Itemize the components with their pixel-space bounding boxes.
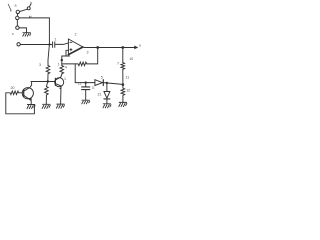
svg-text:o: o [139,44,141,48]
svg-text:7: 7 [117,61,119,65]
svg-text:10: 10 [129,57,133,61]
svg-text:5: 5 [101,76,103,80]
svg-text:1: 1 [64,77,66,81]
svg-text:c: c [12,32,14,36]
svg-text:3: 3 [39,63,41,67]
svg-text:1: 1 [58,63,60,67]
svg-text:21: 21 [98,93,102,97]
svg-text:a: a [15,3,17,7]
svg-text:b: b [30,1,32,5]
svg-text:2: 2 [75,33,77,37]
svg-text:1: 1 [55,38,57,42]
svg-text:11: 11 [126,76,130,80]
svg-text:3: 3 [87,51,89,55]
svg-text:11: 11 [92,86,95,90]
svg-text:12: 12 [126,89,130,93]
svg-text:20: 20 [11,86,15,90]
svg-text:4: 4 [65,66,67,70]
svg-text:11: 11 [78,82,82,86]
